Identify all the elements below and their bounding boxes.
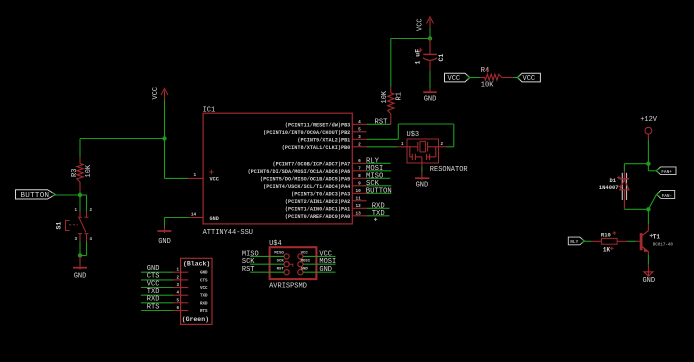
- wire VCC down to rail node: [164, 100, 166, 139]
- resonator U$3: [397, 139, 446, 163]
- wire node to flag FAN+: [647, 164, 649, 171]
- resistor R3: [71, 157, 93, 192]
- svg-text:(PCINT3/T0/ADC3)PA3: (PCINT3/T0/ADC3)PA3: [291, 191, 350, 197]
- svg-text:1: 1: [194, 173, 197, 178]
- svg-text:GND: GND: [200, 272, 208, 276]
- svg-text:(Green): (Green): [182, 316, 209, 323]
- svg-text:(PCINT2/AIN1/ADC2)PA2: (PCINT2/AIN1/ADC2)PA2: [285, 199, 350, 205]
- switch S1: [56, 209, 93, 242]
- pin 4 J1 TXD: [173, 292, 208, 299]
- net GND wire: [141, 271, 173, 273]
- wire flag to R10: [584, 240, 591, 242]
- wire XTAL1 to resonator pin1: [367, 146, 398, 148]
- pin 4 IC1: [285, 120, 367, 129]
- pin 10 IC1: [291, 189, 366, 198]
- svg-text:5: 5: [358, 127, 361, 132]
- net SCK wire: [250, 263, 284, 265]
- wire resonator to GND: [421, 163, 423, 167]
- diode D1 1N4007: [599, 171, 629, 209]
- svg-text:(PCINT7/OC0B/ICP/ADC7)PA7: (PCINT7/OC0B/ICP/ADC7)PA7: [272, 161, 350, 167]
- wire IC pin 14 to GND: [165, 217, 190, 219]
- pin 1 J1 GND: [173, 269, 208, 276]
- svg-text:FAN+: FAN+: [661, 170, 672, 175]
- pin 3 J1 VCC: [173, 284, 208, 291]
- ground GND (C1): [423, 88, 437, 104]
- junction node relay-: [646, 207, 650, 211]
- svg-text:(PCINT1/AIN0/ADC1)PA1: (PCINT1/AIN0/ADC1)PA1: [285, 206, 350, 212]
- svg-text:R10: R10: [601, 231, 611, 238]
- svg-text:AVRISPSMD: AVRISPSMD: [269, 282, 307, 290]
- svg-text:GND: GND: [301, 267, 309, 271]
- svg-text:BC817-40: BC817-40: [653, 244, 674, 248]
- svg-text:4: 4: [358, 120, 361, 125]
- svg-text:TXD: TXD: [200, 295, 208, 299]
- pin 6 IC1: [272, 159, 366, 168]
- svg-text:VCC: VCC: [301, 252, 309, 256]
- wire R4 to flag: [513, 77, 517, 79]
- svg-text:ATTINY44-SSU: ATTINY44-SSU: [203, 229, 253, 237]
- supply VCC (top): [416, 17, 433, 31]
- transistor T1: [636, 225, 673, 255]
- label origin mark TXD: [374, 218, 377, 221]
- svg-text:R1: R1: [395, 92, 403, 100]
- svg-text:(PCINT0/AREF/ADC0)PA0: (PCINT0/AREF/ADC0)PA0: [285, 214, 350, 220]
- flag tip arrows: [52, 193, 55, 197]
- svg-text:RST: RST: [277, 267, 285, 271]
- pad MISO U$4: [274, 252, 289, 259]
- svg-text:RTS: RTS: [147, 303, 160, 311]
- svg-text:(PCINT9/XTAL2)PB1: (PCINT9/XTAL2)PB1: [297, 137, 350, 143]
- svg-text:RST: RST: [375, 118, 389, 126]
- pad VCC U$4: [298, 252, 309, 259]
- svg-text:GND: GND: [158, 238, 171, 246]
- pin 5 J1 RXD: [173, 299, 208, 306]
- svg-text:(PCINT4/USCK/SCL/T1/ADC4)PA4: (PCINT4/USCK/SCL/T1/ADC4)PA4: [263, 184, 350, 190]
- wire T1 emitter to GND: [647, 255, 649, 265]
- net GND wire: [303, 271, 336, 273]
- svg-text:CTS: CTS: [200, 279, 208, 283]
- wire R1 to VCC rail: [390, 39, 392, 87]
- net flag RLY: [568, 237, 584, 245]
- svg-text:FAN-: FAN-: [662, 194, 673, 199]
- net TXD wire: [141, 294, 173, 296]
- svg-text:6: 6: [358, 159, 361, 164]
- pin 6 J1 RTS: [173, 307, 208, 314]
- svg-text:(Black): (Black): [183, 261, 210, 268]
- svg-text:9: 9: [358, 181, 361, 186]
- wire VCC rail to R3: [79, 139, 81, 158]
- svg-text:(PCINT8/XTAL1/CLKI)PB0: (PCINT8/XTAL1/CLKI)PB0: [282, 145, 351, 151]
- svg-text:(PCINT10/INT0/OC0A/CKOUT)PB2: (PCINT10/INT0/OC0A/CKOUT)PB2: [263, 130, 350, 136]
- pad SCK U$4: [277, 259, 290, 266]
- svg-text:12: 12: [356, 204, 362, 209]
- ground GND (T1): [642, 265, 655, 285]
- svg-text:VCC: VCC: [152, 87, 160, 100]
- op IC1 box: [203, 113, 352, 224]
- ground GND (resonator): [415, 173, 429, 190]
- wire R3 to node: [79, 192, 81, 195]
- wire switch to GND node: [79, 242, 81, 256]
- svg-text:VCC: VCC: [200, 287, 208, 291]
- svg-text:(PCINT6/DI/SDA/MOSI/OC1A/ADC6): (PCINT6/DI/SDA/MOSI/OC1A/ADC6)PA6: [248, 169, 351, 175]
- svg-text:MOSI: MOSI: [301, 259, 311, 263]
- ground GND (S1): [73, 256, 87, 281]
- svg-text:SCK: SCK: [242, 258, 255, 266]
- svg-text:T1: T1: [653, 233, 661, 240]
- svg-text:10K: 10K: [481, 81, 494, 89]
- svg-text:VCC: VCC: [210, 177, 219, 183]
- svg-text:GND: GND: [74, 273, 87, 281]
- pin 8 IC1: [260, 174, 367, 183]
- net MOSI wire: [367, 170, 392, 172]
- svg-text:TXD: TXD: [372, 210, 385, 218]
- svg-text:GND: GND: [416, 182, 429, 190]
- net RST wire: [250, 271, 284, 273]
- key mark U$4: [289, 264, 293, 267]
- connector U$4 box: [270, 247, 317, 279]
- junction node VCC/C1: [428, 36, 432, 40]
- svg-text:1N4007: 1N4007: [599, 184, 619, 191]
- svg-text:MISO: MISO: [274, 252, 284, 256]
- svg-text:RTS: RTS: [200, 310, 208, 314]
- svg-text:GND: GND: [210, 216, 219, 222]
- svg-text:13: 13: [356, 211, 362, 216]
- svg-text:MISO: MISO: [242, 250, 259, 258]
- svg-text:RLY: RLY: [570, 240, 578, 245]
- net TXD wire: [367, 215, 390, 217]
- svg-text:GND: GND: [424, 96, 437, 104]
- svg-text:(PCINT5/DO/MISO/OC1B/ADC5)PA5: (PCINT5/DO/MISO/OC1B/ADC5)PA5: [260, 176, 350, 182]
- pin 11 IC1: [285, 196, 367, 205]
- svg-text:VCC: VCC: [448, 75, 461, 83]
- net VCC wire: [141, 287, 173, 289]
- resistor R4: [480, 67, 513, 89]
- svg-text:IC1: IC1: [203, 106, 216, 114]
- svg-text:10K: 10K: [381, 90, 389, 103]
- svg-text:10: 10: [356, 189, 362, 194]
- svg-text:BUTTON: BUTTON: [366, 188, 392, 196]
- wire flag FAN- to node: [648, 194, 656, 209]
- wire C1 to GND: [429, 71, 431, 88]
- svg-text:1 uF: 1 uF: [415, 49, 422, 65]
- svg-text:+12V: +12V: [640, 116, 658, 124]
- pin 14 IC1 GND: [189, 217, 203, 219]
- supply VCC (left): [152, 87, 168, 100]
- svg-text:RESONATOR: RESONATOR: [430, 166, 469, 174]
- svg-text:S1: S1: [56, 222, 63, 230]
- resistor R1: [381, 87, 403, 125]
- net flag FAN-: [657, 190, 675, 198]
- wire D1 anode to node: [624, 208, 648, 210]
- svg-text:R3: R3: [71, 169, 79, 177]
- connector J1 box: [181, 258, 212, 324]
- svg-text:SCK: SCK: [277, 259, 285, 263]
- ground GND (IC): [157, 227, 171, 247]
- net RLY wire: [367, 162, 391, 164]
- svg-text:1K: 1K: [603, 246, 611, 253]
- wire node to IC pin 1: [164, 139, 166, 179]
- svg-text:RST: RST: [242, 266, 255, 274]
- wire BUTTON flag to node: [55, 194, 80, 196]
- net MISO wire: [367, 177, 391, 179]
- net BUTTON wire: [367, 192, 392, 194]
- pin 9 IC1: [263, 181, 366, 190]
- wire node to D1 cathode: [624, 163, 648, 165]
- junction node VCC rail: [162, 136, 166, 140]
- pin 3 IC1: [297, 135, 366, 144]
- svg-text:14: 14: [191, 212, 197, 217]
- net RTS wire: [141, 310, 173, 312]
- svg-text:2: 2: [358, 142, 361, 147]
- supply +12V: [640, 116, 658, 140]
- pin 2 IC1: [282, 142, 367, 151]
- net MOSI wire: [303, 263, 336, 265]
- svg-text:10K: 10K: [85, 164, 93, 177]
- wire node to T1 collector: [647, 209, 649, 225]
- svg-text:(PCINT11/RESET/dW)PB3: (PCINT11/RESET/dW)PB3: [285, 122, 350, 128]
- pin 1 IC1 VCC: [188, 177, 203, 179]
- svg-text:U$4: U$4: [269, 240, 282, 248]
- net flag FAN+: [656, 167, 676, 175]
- pad MOSI U$4: [298, 259, 311, 266]
- svg-text:GND: GND: [642, 277, 655, 285]
- svg-text:7: 7: [358, 166, 361, 171]
- svg-text:MOSI: MOSI: [319, 258, 336, 266]
- net SCK wire: [367, 185, 392, 187]
- net RXD wire: [367, 207, 390, 209]
- junction node BUTTON: [78, 193, 82, 197]
- pin 7 IC1: [248, 166, 367, 175]
- net flag VCC (right of R4): [517, 73, 540, 82]
- svg-text:RXD: RXD: [200, 302, 208, 306]
- net flag VCC (left of R4): [445, 73, 470, 82]
- net VCC wire: [303, 255, 336, 257]
- wire +12V down: [647, 140, 649, 164]
- svg-text:VCC: VCC: [416, 18, 424, 31]
- pad RST U$4: [277, 267, 290, 274]
- pin 12 IC1: [285, 204, 367, 213]
- svg-text:VCC: VCC: [319, 250, 332, 258]
- wire flag to R4: [470, 77, 480, 79]
- svg-text:3: 3: [358, 135, 361, 140]
- net CTS wire: [141, 279, 173, 281]
- pin 5 IC1: [263, 127, 366, 136]
- wire XTAL2 to resonator pin2: [367, 138, 399, 140]
- net flag BUTTON: [16, 190, 56, 201]
- resistor R10: [591, 231, 627, 253]
- svg-text:VCC: VCC: [523, 75, 536, 83]
- net RXD wire: [141, 302, 173, 304]
- pin 2 J1 CTS: [173, 276, 208, 283]
- IC1 left pin texts: [209, 170, 219, 222]
- svg-text:8: 8: [358, 174, 361, 179]
- svg-text:C1: C1: [438, 54, 445, 62]
- capacitor C1: [415, 39, 445, 72]
- wire R10 to T1 base: [627, 240, 636, 242]
- svg-text:U$3: U$3: [407, 131, 420, 139]
- net RST wire: [367, 123, 391, 125]
- svg-text:GND: GND: [319, 266, 332, 274]
- svg-text:BUTTON: BUTTON: [21, 192, 50, 200]
- pad GND U$4: [298, 267, 309, 274]
- pin 13 IC1: [285, 211, 367, 220]
- junction node S1-GND: [78, 253, 82, 257]
- svg-text:D1: D1: [610, 177, 617, 184]
- wire node to switch: [79, 195, 81, 212]
- junction node relay+: [646, 162, 650, 166]
- svg-text:11: 11: [356, 196, 362, 201]
- wire rail to R3 column: [80, 138, 165, 140]
- net MISO wire: [250, 255, 284, 257]
